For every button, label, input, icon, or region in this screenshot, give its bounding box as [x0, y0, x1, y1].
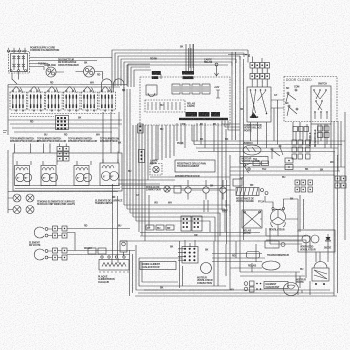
wire bundle nested corners from right bus	[112, 50, 248, 86]
connector cols broil	[48, 226, 67, 238]
fan motor M4	[284, 283, 299, 296]
wire right-edge verticals	[334, 112, 345, 176]
connector stack far right	[335, 176, 346, 188]
label: moteur verrouillage box	[240, 157, 268, 164]
label broil	[29, 242, 41, 248]
wire	[95, 72, 103, 80]
element enclosures	[15, 163, 120, 186]
wire mid horizontals	[120, 233, 306, 242]
surface unit switch S1	[10, 86, 27, 111]
lamp four label	[150, 160, 158, 166]
wire transformer box edges	[180, 241, 183, 288]
vertical label verrou	[309, 129, 317, 147]
surface unit switch S2	[28, 86, 45, 111]
wire lamp-broil link	[148, 195, 150, 228]
oven lamp L2	[164, 186, 170, 192]
cooling fan M6	[269, 207, 286, 231]
surface unit switch S4	[63, 86, 80, 111]
wire bundle bottom drop	[214, 200, 230, 290]
wire lower box outline	[135, 245, 337, 296]
wire top-left extras	[30, 64, 84, 73]
wire bar corner turns	[222, 121, 240, 131]
connector J1 dot grid	[56, 116, 69, 130]
door switch SW9	[285, 102, 298, 116]
door lock switch SW7	[247, 87, 271, 122]
wire lamp section	[118, 180, 175, 184]
label box sonde alim	[140, 262, 176, 270]
wire strip links	[252, 68, 267, 87]
nested corner wires lamp feed	[124, 205, 230, 241]
inline connector upper on bundle	[138, 124, 144, 133]
door latch inner box	[311, 86, 331, 124]
surface unit switch S5	[81, 86, 98, 111]
wire verticals under grid	[204, 200, 228, 212]
door connector strip K2	[250, 74, 270, 80]
terminal block TB1	[9, 52, 30, 74]
transformer connector J3	[178, 247, 198, 264]
clock motor B1	[45, 64, 57, 77]
wire left rail	[8, 150, 13, 213]
wire commutateur to door links	[271, 100, 284, 145]
wire bottom mid extras	[212, 241, 262, 272]
inline label boxes	[146, 225, 174, 230]
door closed dashed box	[284, 77, 337, 122]
wire fan loop	[260, 196, 298, 232]
left margin tick	[3, 131, 7, 133]
broil element E5	[34, 227, 48, 238]
wire door box drops extra	[296, 124, 331, 148]
surface unit switch S6	[99, 86, 116, 111]
cam switch circles	[271, 145, 283, 159]
label elements right text	[95, 200, 123, 206]
clock box bottom right	[247, 252, 260, 259]
surface element E1	[16, 161, 32, 182]
surface unit switch S3	[46, 86, 63, 111]
fuse boxes right	[253, 158, 269, 171]
wire oven switch drops	[103, 112, 119, 163]
wire feed to door strips	[228, 54, 250, 56]
label: terminal block text	[30, 47, 60, 53]
indicator light I3	[13, 206, 21, 214]
door motor M5	[296, 262, 329, 286]
wire nested corners bottom right	[266, 228, 310, 252]
connector cols bake	[48, 248, 67, 260]
wire bottom-right corners	[296, 252, 320, 295]
bake element E6	[34, 249, 48, 260]
relay oval	[248, 261, 280, 270]
wire	[18, 72, 20, 80]
wire switch feed bus	[8, 85, 127, 136]
relay circles row	[181, 180, 235, 200]
wire vertical pair to connector	[190, 44, 193, 68]
wire fan drop	[277, 225, 279, 237]
wire element box bottoms	[8, 186, 120, 192]
label: commutateur verrouillage porte	[244, 124, 262, 132]
wire lamp row horiz	[150, 176, 230, 178]
wire right verticals	[240, 56, 345, 296]
ribbon connector P2	[182, 71, 194, 79]
connector P5	[211, 112, 220, 117]
label: disjoncteur text	[58, 59, 79, 67]
wire board connector drops	[177, 123, 226, 244]
label box chauffe	[264, 282, 288, 290]
ribbon connector P1	[152, 71, 161, 79]
varistor RV1	[215, 63, 219, 76]
wire mid-right horizontals	[230, 167, 345, 175]
electronic control dashed box U1	[140, 77, 230, 125]
label douille	[146, 186, 161, 192]
label RD WH	[84, 225, 92, 251]
big elements box	[13, 153, 122, 191]
wire probe drop	[112, 258, 118, 263]
wire switch under-bus extra	[10, 116, 54, 118]
wire probe verticals	[113, 184, 118, 258]
wire right frame extend	[227, 155, 231, 244]
connector stack mid-right	[285, 158, 293, 170]
label row: top burner switch texts	[10, 138, 120, 144]
oven lamp L1	[153, 166, 159, 172]
wire J3 pins up	[185, 240, 195, 247]
oven switch arc tops	[102, 79, 124, 92]
junction dots	[245, 54, 250, 57]
vertical wire bundle center	[124, 87, 156, 241]
connector pair col2	[306, 140, 311, 159]
hidden bake element R1 hatched	[236, 188, 268, 204]
wire board-left drops	[158, 125, 174, 160]
surface element E2	[42, 161, 58, 182]
wire right verticals mid2	[300, 195, 304, 232]
wire right pair	[232, 52, 236, 140]
wire K1 feed drops	[248, 55, 262, 63]
wire	[12, 73, 17, 84]
indicator light I1	[13, 194, 21, 202]
wire right mid horizontals	[212, 258, 305, 276]
wire	[30, 60, 98, 62]
connector grid J2	[181, 216, 202, 231]
indicator light I4	[26, 206, 34, 214]
overload breaker B2	[84, 62, 95, 78]
terminal chain circles L1 N L2	[7, 48, 26, 52]
thermostat small box	[265, 241, 285, 248]
connector P4	[199, 112, 210, 117]
warming element block	[98, 256, 129, 284]
indicator light I2	[26, 194, 34, 202]
vent hood box	[298, 230, 335, 252]
wire bottom right drops	[298, 245, 328, 295]
connector row under door box	[293, 127, 309, 132]
surface element E4	[102, 159, 119, 181]
convection motor M3	[197, 263, 213, 285]
door connector strip K1	[250, 63, 270, 69]
connector bar	[179, 118, 228, 120]
wire quad above P2	[186, 44, 194, 71]
inline label boxes bake wires	[88, 248, 106, 254]
wire	[30, 57, 113, 59]
terminal circles bottom	[244, 281, 261, 292]
main horizontal bus	[192, 125, 345, 152]
wire cascade end stubs	[232, 50, 248, 66]
label elements de surface	[37, 201, 75, 207]
element value labels	[17, 176, 113, 181]
scan noise overlay	[0, 0, 1, 1]
wire bundle-to-board corners	[128, 64, 151, 87]
connector stack under door box	[318, 126, 330, 138]
wire commutateur drops	[251, 122, 267, 148]
connector stack top	[57, 147, 69, 162]
temperature probe	[120, 241, 127, 256]
diode D1	[324, 234, 332, 250]
wire broil feeds	[67, 229, 135, 255]
extra code labels	[30, 94, 334, 292]
wire elements-to-right links	[122, 186, 230, 189]
label: carte relais four	[204, 59, 213, 65]
connector pair col1	[292, 140, 303, 159]
wire misc color labels	[50, 58, 309, 238]
connector grid right	[295, 180, 313, 192]
wire below door boxes	[293, 122, 325, 148]
latch motor M2	[243, 142, 261, 155]
gy junction box	[233, 179, 242, 186]
surface element E3	[76, 161, 92, 182]
thermal switch right	[243, 163, 250, 173]
wire switch lower bus	[8, 114, 122, 133]
lamp dashed enclosure	[150, 164, 162, 176]
wire bloc right verticals	[130, 250, 133, 296]
door switch SW8	[286, 86, 299, 103]
inline connector on bundle	[139, 150, 145, 163]
fan relay box K3	[242, 210, 262, 235]
toaster resistance box	[175, 160, 215, 172]
socket boxes	[174, 186, 181, 193]
wire elements feed verticals	[15, 144, 67, 154]
connector P3	[186, 112, 198, 117]
